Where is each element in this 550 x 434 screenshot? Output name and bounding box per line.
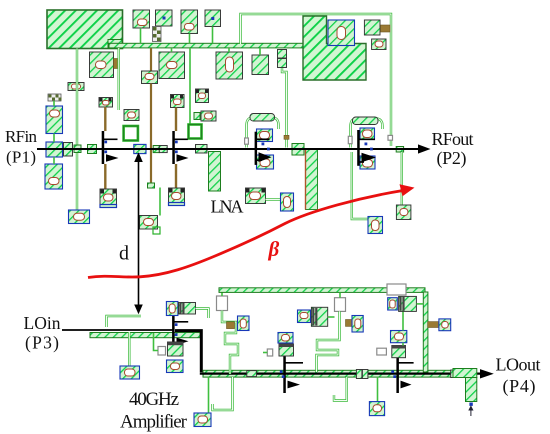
via array V2: [48, 94, 62, 101]
below stub capacitor C19: [369, 377, 384, 416]
capacitor C14: [238, 316, 250, 331]
output tail L: [453, 369, 477, 406]
matching blocks on line: [134, 144, 167, 153]
wire: [338, 311, 340, 333]
connector: [114, 59, 119, 69]
capacitor C1: [133, 10, 150, 28]
connector: [346, 320, 353, 327]
meander M2: [317, 333, 340, 372]
LO bottom channel: [203, 370, 453, 377]
matching block: [88, 145, 97, 154]
wire: [212, 27, 214, 44]
FET pair stage2: [298, 310, 311, 323]
capacitor C13: [396, 205, 411, 220]
capacitor C8: [140, 216, 161, 235]
on-line connector S1: [247, 371, 257, 377]
transistor Q3 cascode: [255, 132, 272, 165]
RFout arrowhead: [418, 144, 431, 153]
via pad P_a: [156, 10, 173, 26]
input block 2: [64, 143, 73, 157]
svg-text:LNA: LNA: [211, 197, 244, 217]
bias bus: [108, 40, 122, 49]
matching block on line: [396, 147, 403, 153]
svg-text:LOout: LOout: [496, 355, 541, 375]
wire: [266, 198, 282, 200]
svg-text:(P4): (P4): [503, 376, 536, 397]
tail mini arrow: [468, 405, 473, 416]
bias cell R3: [196, 89, 209, 103]
LOout arrowhead: [480, 369, 494, 378]
big block A2: [159, 52, 185, 79]
svg-text:Amplifier: Amplifier: [120, 411, 188, 432]
wire: [222, 311, 229, 323]
LO feed wire: [107, 316, 142, 327]
on-line connector S3: [451, 370, 461, 378]
inductor pill Q4: [353, 117, 379, 125]
feedback curve beta: [88, 184, 415, 277]
via array V1: [153, 27, 162, 42]
capacitor C3: [90, 52, 114, 78]
svg-text:RFin: RFin: [5, 127, 38, 146]
top feed wire: [241, 14, 392, 146]
capacitor C20: [428, 319, 451, 331]
connector: [263, 349, 273, 356]
capacitor C10: [281, 193, 294, 211]
gate cap Q5: [166, 302, 178, 316]
svg-text:LOin: LOin: [24, 313, 61, 333]
LO stub capacitor C16: [120, 332, 140, 379]
cap stack Q5: [168, 342, 184, 356]
drain cap stage3: [399, 296, 424, 311]
LO input bar: [90, 333, 200, 338]
matching block: [196, 145, 208, 154]
white rect W2: [387, 284, 406, 295]
wire: [53, 101, 55, 164]
wire: [189, 48, 191, 124]
wire: [76, 49, 78, 211]
input block: [46, 142, 63, 157]
capacitor C12: [368, 217, 383, 234]
wire: [189, 34, 191, 44]
cascode U feed Q3: [245, 117, 279, 147]
capacitor C4: [124, 110, 139, 121]
svg-text:d: d: [119, 243, 129, 265]
wire: [259, 48, 261, 55]
FET drain block Q4: [360, 128, 375, 140]
block T: [364, 20, 380, 35]
LOin line: [62, 329, 174, 331]
connector: [74, 145, 81, 153]
capacitor C0 big: [328, 20, 355, 46]
capacitor C2: [181, 10, 198, 34]
FET cell bottom Q1: [100, 189, 117, 208]
capacitor C7: [45, 164, 63, 189]
RF main line: [37, 148, 419, 150]
FET pair stage3: [388, 298, 403, 331]
distance arrow d: [134, 152, 143, 314]
svg-text:RFout: RFout: [432, 129, 474, 149]
FET bias cell top Q1: [99, 98, 113, 108]
FET source block Q3: [257, 155, 274, 169]
bias wire Q3: [282, 68, 289, 148]
svg-text:(P1): (P1): [6, 147, 36, 166]
resistor R1: [68, 83, 84, 91]
gate cap Q6: [278, 333, 293, 344]
feed connector Q4: [388, 135, 393, 140]
stacked pads: [278, 50, 287, 68]
LNA top bias pad: [47, 10, 123, 49]
FET cell bottom Q2: [169, 188, 185, 206]
capacitor C11: [372, 39, 386, 50]
right feed column: [423, 292, 428, 372]
stub column 2: [306, 150, 318, 210]
wire: [352, 152, 368, 219]
inductor L2: [189, 125, 202, 139]
capacitor C9: [201, 111, 216, 121]
inductor pill Q3: [250, 114, 275, 122]
resistor R2: [142, 48, 158, 188]
wire: [221, 290, 223, 296]
svg-text:(P2): (P2): [437, 148, 467, 169]
connector: [194, 113, 200, 120]
LO thick path: [175, 331, 201, 373]
resistor wire: [401, 152, 403, 205]
transistor Q4 cascode: [357, 130, 376, 166]
wire: [196, 309, 209, 319]
hook stub 2: [334, 377, 347, 401]
cascode U feed Q4: [348, 118, 382, 147]
wire: [117, 48, 119, 110]
inductor L1: [124, 126, 138, 141]
connector: [154, 333, 166, 355]
resistor wire: [104, 107, 106, 131]
matching square on line: [292, 144, 304, 156]
on-line connector S2: [356, 370, 368, 379]
transistor Q1: [102, 131, 119, 164]
cap stack Q7: [392, 346, 406, 358]
cap stack Q6: [279, 344, 294, 356]
svg-text:β: β: [268, 237, 280, 261]
transistor Q5: [172, 314, 188, 347]
stub column 1: [209, 152, 221, 192]
drain cap stage2: [311, 307, 327, 326]
via pad P_b: [205, 10, 221, 27]
FET cell below Q3: [246, 188, 266, 204]
hook stub: [213, 377, 233, 410]
FET bias cell top Q2: [171, 95, 185, 108]
wire: [140, 28, 142, 43]
svg-text:40GHz: 40GHz: [129, 389, 179, 410]
block A4: [252, 55, 269, 75]
transistor Q6: [280, 356, 303, 394]
white rect W1: [217, 296, 228, 311]
white rect W3: [328, 292, 346, 317]
wire: [159, 188, 161, 216]
wire: [171, 48, 173, 52]
big L pad: [303, 16, 366, 80]
FET source block Q4: [360, 156, 375, 169]
below stub capacitor C17: [194, 377, 211, 427]
resistor wire: [175, 108, 177, 132]
meander M1: [225, 322, 238, 374]
transistor Q2: [172, 131, 188, 164]
connector: [381, 25, 391, 32]
resistor wire: [175, 164, 177, 188]
big block A3: [216, 52, 243, 79]
capacitor C15: [167, 360, 184, 373]
gate cap Q7: [391, 331, 407, 346]
resistor wire: [104, 164, 106, 189]
capacitor C18: [352, 316, 363, 333]
top bus: [219, 288, 425, 293]
capacitor C5: [69, 210, 90, 224]
connector: [227, 322, 235, 329]
capacitor C6: [46, 106, 63, 134]
transistor Q7: [391, 356, 413, 394]
FET drain block Q3: [257, 129, 273, 142]
LO bottom line: [200, 373, 480, 375]
wire: [228, 48, 230, 52]
drain cap Q5: [179, 303, 196, 315]
connector: [377, 348, 387, 355]
